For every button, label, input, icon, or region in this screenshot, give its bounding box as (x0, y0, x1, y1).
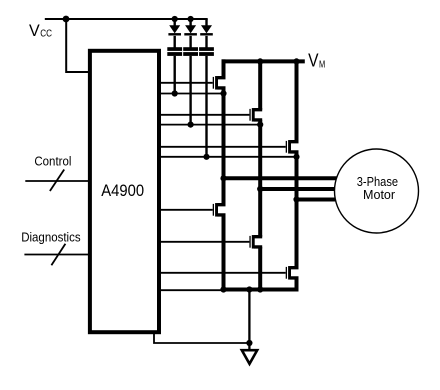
node: phase B motor dot (257, 186, 263, 192)
wire: Vcc top rail (45, 18, 208, 20)
wire: gate drive high-side B (158, 114, 249, 116)
svg-text:Diagnostics: Diagnostics (21, 230, 81, 245)
wire: bridge column B segments (258, 59, 262, 289)
node: C2 to phase B dot (188, 122, 194, 128)
motor M1 3-Phase Motor (335, 149, 419, 233)
wire: C2 down to phase B line (189, 56, 191, 125)
wire: bridge column A segments (222, 59, 226, 289)
VM supply rail (222, 59, 305, 63)
node: ground junction dot (246, 340, 252, 346)
wire: gate drive high-side A (158, 82, 213, 84)
transistor Q4 low-side A (218, 205, 226, 215)
IC U1 A4900 (90, 51, 159, 332)
wire: C1 down to phase A line (173, 56, 175, 94)
wire: phase B sense (158, 124, 260, 126)
svg-text:M: M (319, 60, 325, 71)
svg-text:V: V (308, 50, 319, 71)
node: bus dot ground stem (246, 286, 252, 292)
wire: gate drive high-side C (158, 146, 286, 148)
wire: gate drive low-side C (158, 272, 286, 274)
node: C3 to phase C dot (203, 154, 209, 160)
bootstrap diode D2 (189, 19, 191, 26)
wire: ground sense to bus (158, 289, 224, 291)
node: rail dot column B (257, 58, 263, 64)
bootstrap capacitor C3 (199, 47, 214, 51)
ground symbol (242, 350, 257, 364)
wire: ground stem (248, 290, 250, 351)
node: bus dot column A (220, 286, 226, 292)
wire: phase C sense (158, 156, 297, 158)
bootstrap diode D1 (173, 19, 175, 26)
wire: motor phase B (260, 187, 337, 191)
bus slash: Diagnostics (51, 244, 65, 266)
bus slash: Control (50, 170, 64, 192)
wire: Diagnostics input (24, 254, 90, 256)
wire: gate drive low-side B (158, 241, 249, 243)
svg-text:Control: Control (34, 154, 71, 169)
bootstrap diode D3 (205, 19, 207, 26)
node: Q2 source / phase B dot (257, 122, 263, 128)
svg-text:A4900: A4900 (101, 181, 144, 200)
node: Q1 source / phase A dot (220, 90, 226, 96)
svg-text:CC: CC (40, 28, 52, 40)
node: C1 to phase A dot (172, 90, 178, 96)
transistor Q6 low-side C (291, 268, 299, 278)
wire: gate drive low-side A (158, 209, 213, 211)
node: bus dot column B (257, 286, 263, 292)
transistor Q5 low-side B (254, 237, 262, 247)
wire: motor phase C (297, 198, 338, 202)
transistor Q1 high-side A (218, 78, 226, 88)
node: phase A motor dot (220, 175, 226, 181)
ground bus (222, 288, 299, 292)
transistor Q2 high-side B (254, 110, 262, 120)
wire: D3 to C3 (205, 36, 207, 48)
wire: D2 to C2 (189, 36, 191, 48)
svg-text:V: V (29, 21, 40, 40)
bootstrap capacitor C1 (167, 47, 182, 51)
wire: phase A sense (158, 93, 224, 95)
node: Vcc junction dot (63, 16, 70, 23)
node: rail dot column C (293, 58, 299, 64)
node: dot D1 on Vcc rail (172, 16, 178, 22)
node: dot D2 on Vcc rail (188, 16, 194, 22)
bootstrap capacitor C2 (183, 47, 198, 51)
node: Q3 source / phase C dot (293, 154, 299, 160)
wire: Vcc down to A4900 (66, 19, 90, 72)
transistor Q3 high-side C (291, 142, 299, 152)
wire: Control input (25, 180, 90, 182)
wire: D1 to C1 (173, 36, 175, 48)
node: phase C motor dot (293, 196, 299, 202)
wire: bridge column C segments (295, 59, 299, 291)
wire: A4900 ground pin (154, 331, 249, 343)
svg-text:Motor: Motor (363, 187, 396, 202)
wire: C3 down to phase C line (205, 56, 207, 157)
wire: motor phase A (224, 176, 338, 180)
